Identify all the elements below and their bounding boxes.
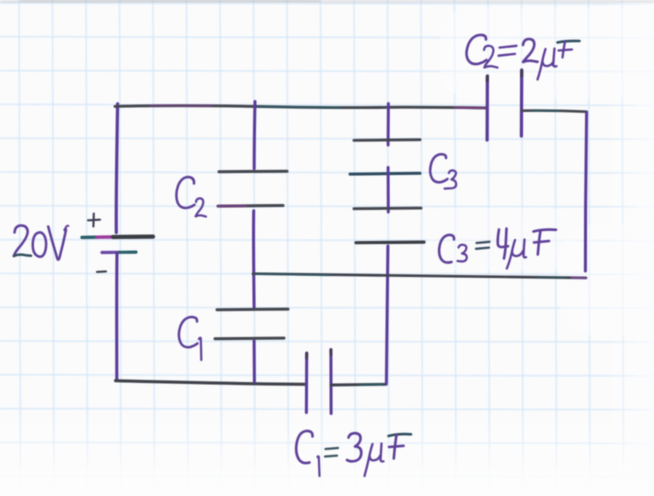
label: C3 (right of C3a) [430, 154, 456, 188]
battery minus sign [97, 270, 106, 273]
wire: middle branch vertical (center segment) [252, 211, 256, 308]
battery plus sign [88, 214, 100, 227]
wire: bottom bus right segment [331, 383, 386, 387]
capacitor C3b: bottom plate [356, 241, 424, 245]
wire: middle horizontal bus (y~276) [253, 274, 586, 278]
capacitor C2 (middle branch): bottom plate [218, 204, 283, 208]
wire: battery positive lead (left vertical, top) [116, 104, 117, 233]
capacitor C2 (top right): right plate [520, 70, 523, 136]
label: C2 (middle branch) [176, 177, 206, 217]
wire: teal tint segment of top bus [258, 106, 340, 109]
battery B1: positive plate [82, 235, 97, 239]
label: C1 = 3uF (bottom) [296, 431, 411, 476]
label: C2 = 2uF (top right) [467, 35, 580, 80]
wire: top horizontal bus [115, 106, 487, 108]
capacitor C1 (bottom, vertical plates): left plate [305, 353, 308, 413]
capacitor C2 (top right, vertical plates): left plate [486, 76, 489, 140]
wire: C3 branch inner link [387, 168, 390, 213]
capacitor C1 (middle branch): top plate [217, 308, 288, 312]
label: C3 = 4uF [439, 229, 556, 269]
wire: middle branch vertical (lower) [253, 341, 256, 382]
capacitor C3b: top plate [354, 207, 421, 210]
wire: bottom bus left segment [116, 381, 307, 385]
capacitor C3a: bottom plate [350, 172, 420, 176]
capacitor C1 (middle branch): bottom plate [215, 337, 284, 341]
wire: C3 branch vertical (top) [387, 104, 390, 145]
wire: middle branch vertical (upper, to C2 plates) [253, 102, 257, 169]
battery B1: negative plate [102, 251, 119, 254]
label: C1 (middle branch) [179, 317, 201, 360]
capacitor C3a: top plate [354, 138, 420, 142]
wire: right vertical [585, 112, 586, 271]
wire: C3 branch vertical (bottom, to bottom bus) [386, 246, 388, 384]
capacitor C2 (middle branch): top plate [219, 170, 287, 174]
wire: battery negative lead (left vertical, bottom) [115, 253, 118, 380]
capacitor C1 (bottom): right plate [329, 350, 332, 414]
label: 20V [14, 225, 69, 259]
wire: magenta tint segment of top bus [150, 105, 212, 107]
wire: top right segment to right vertical [522, 111, 587, 112]
